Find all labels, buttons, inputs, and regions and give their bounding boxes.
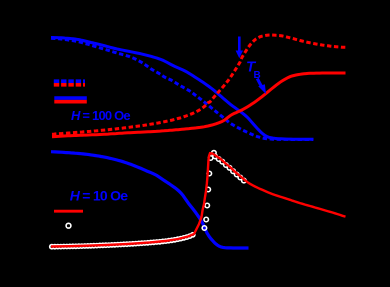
bottom panel FC blue solid curve	[51, 152, 249, 248]
arrow at T_B on ZFC dashed peak	[236, 37, 243, 59]
svg-text:H = 100 Oe: H = 100 Oe	[71, 108, 130, 123]
bottom panel ZFC data markers white circles	[49, 232, 196, 250]
bottom panel data markers on rise and decay white rings	[202, 151, 246, 231]
arrow pointing to FC red curve	[256, 78, 266, 94]
legend dashed key red half	[54, 83, 85, 87]
legend dashed key blue half	[54, 79, 85, 83]
legend solid key red half	[54, 100, 87, 104]
legend solid key blue half	[54, 96, 87, 100]
legend red line	[54, 210, 83, 213]
legend white circle marker	[66, 223, 71, 228]
top panel FC blue solid curve	[51, 38, 314, 140]
svg-text:H = 10 Oe: H = 10 Oe	[70, 187, 128, 203]
bottom panel ZFC red fit curve	[51, 153, 346, 246]
top panel FC red solid curve	[52, 73, 346, 137]
top panel ZFC red dashed curve	[52, 35, 346, 134]
top panel ZFC blue dashed curve	[51, 38, 313, 139]
